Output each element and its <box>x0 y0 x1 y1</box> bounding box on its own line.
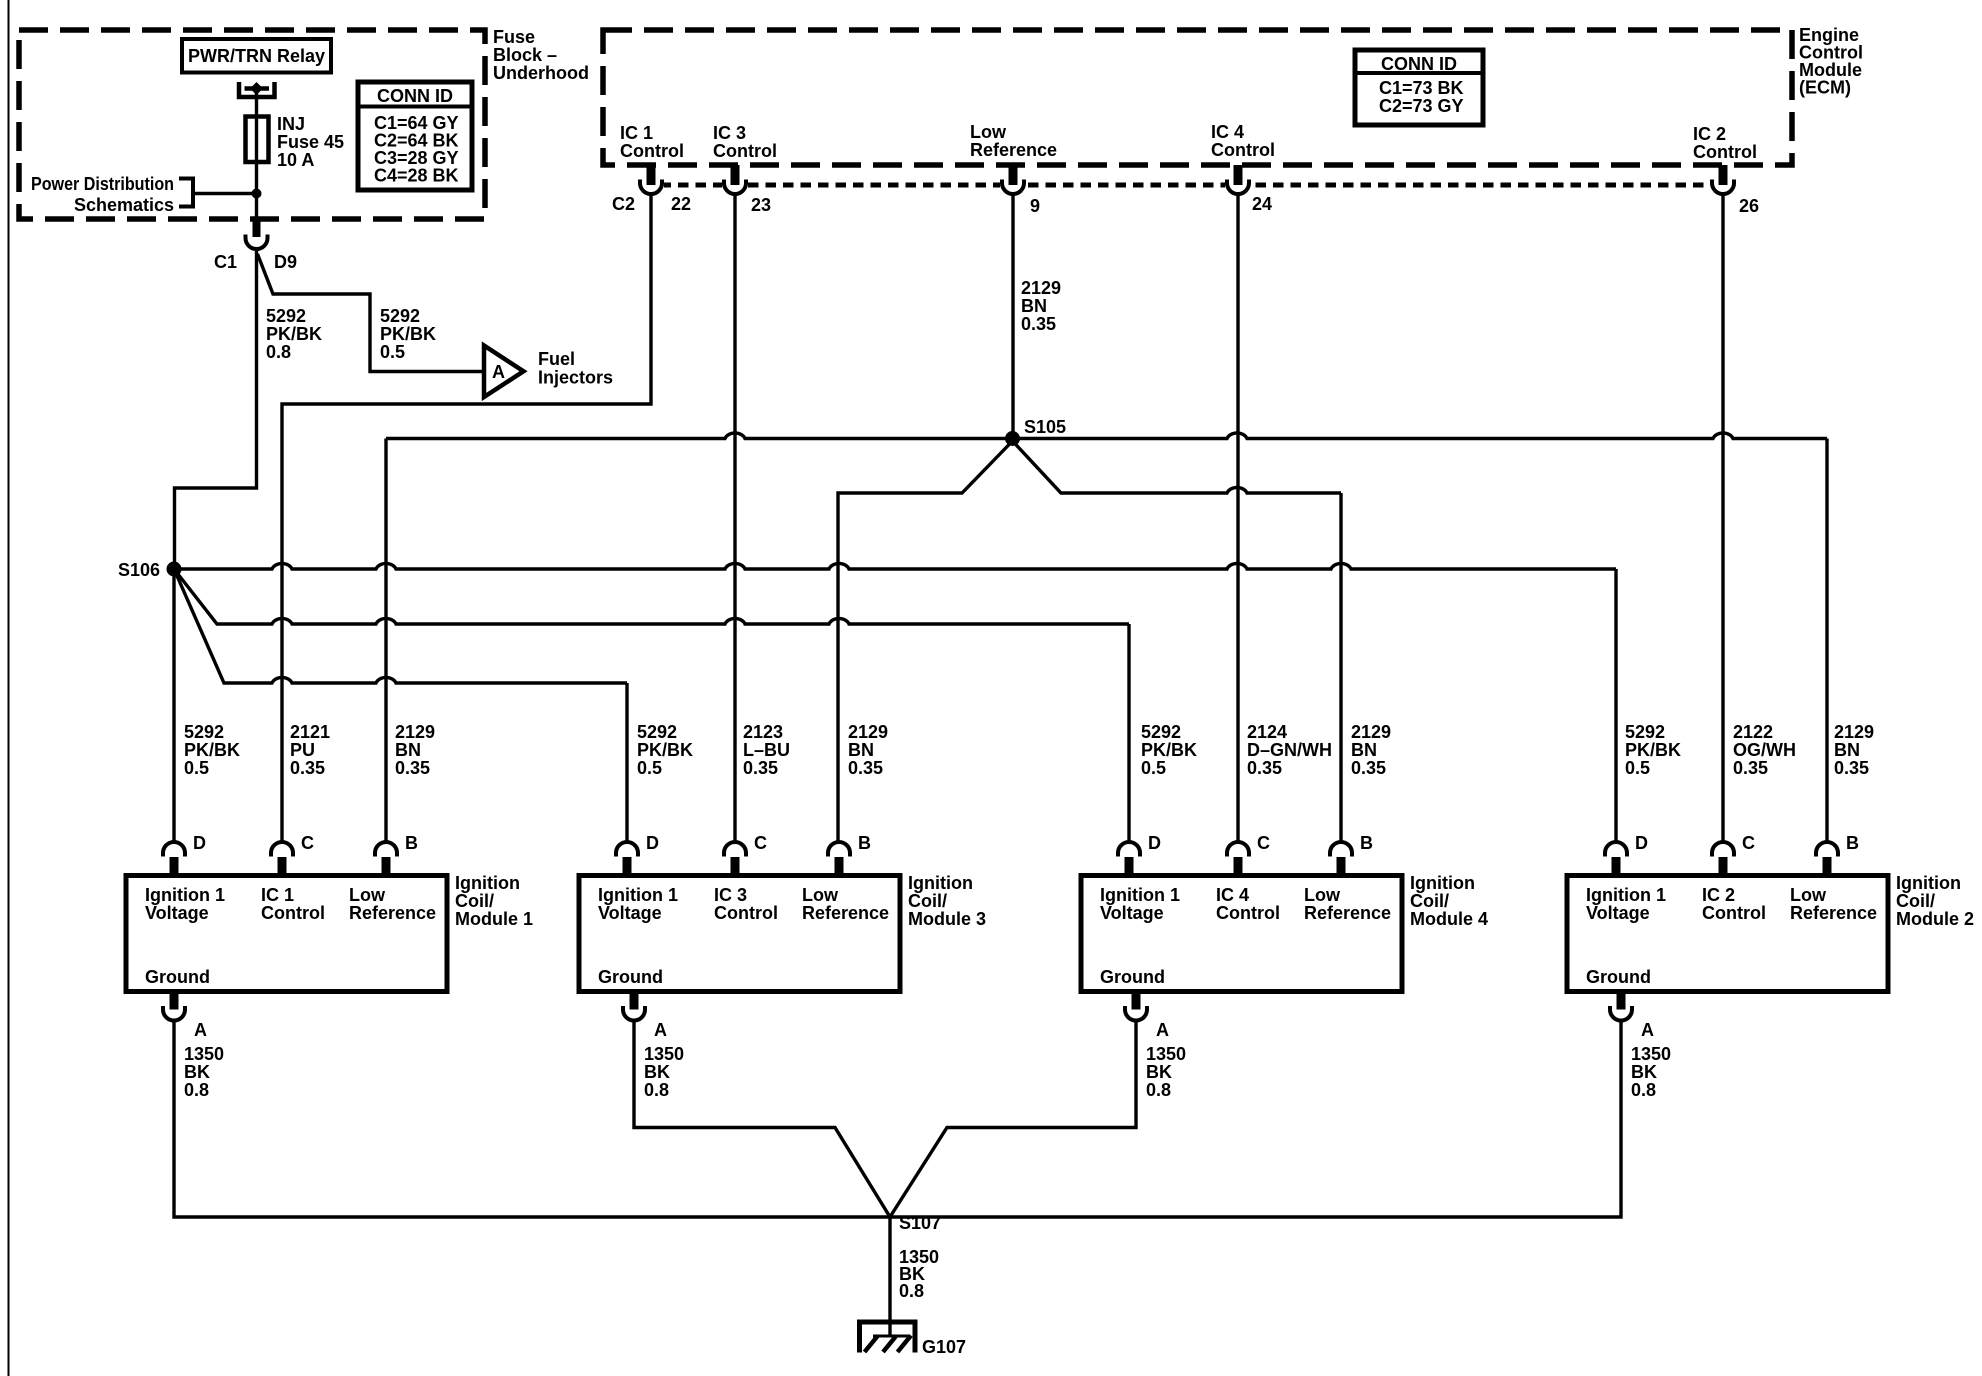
svg-text:5292: 5292 <box>184 722 224 742</box>
svg-text:B: B <box>1360 833 1373 853</box>
svg-text:Voltage: Voltage <box>145 903 209 923</box>
svg-text:CONN ID: CONN ID <box>1381 54 1457 74</box>
svg-text:INJ: INJ <box>277 114 305 134</box>
svg-text:2124: 2124 <box>1247 722 1287 742</box>
svg-text:2121: 2121 <box>290 722 330 742</box>
svg-text:Control: Control <box>1702 903 1766 923</box>
svg-text:CONN ID: CONN ID <box>377 86 453 106</box>
svg-text:0.8: 0.8 <box>644 1080 669 1100</box>
svg-text:Ignition 1: Ignition 1 <box>1100 885 1180 905</box>
svg-text:1350: 1350 <box>1631 1044 1671 1064</box>
svg-text:PU: PU <box>290 740 315 760</box>
svg-text:L–BU: L–BU <box>743 740 790 760</box>
svg-text:Coil/: Coil/ <box>455 891 494 911</box>
svg-text:C: C <box>754 833 767 853</box>
svg-text:D: D <box>1635 833 1648 853</box>
svg-text:C: C <box>301 833 314 853</box>
svg-text:1350: 1350 <box>1146 1044 1186 1064</box>
svg-text:0.8: 0.8 <box>1631 1080 1656 1100</box>
svg-text:5292: 5292 <box>266 306 306 326</box>
svg-text:PWR/TRN Relay: PWR/TRN Relay <box>188 46 325 66</box>
svg-text:Ignition: Ignition <box>1410 873 1475 893</box>
svg-text:PK/BK: PK/BK <box>1625 740 1681 760</box>
svg-text:PK/BK: PK/BK <box>184 740 240 760</box>
svg-text:Fuse 45: Fuse 45 <box>277 132 344 152</box>
svg-text:A: A <box>194 1020 207 1040</box>
svg-text:OG/WH: OG/WH <box>1733 740 1796 760</box>
svg-text:A: A <box>1156 1020 1169 1040</box>
svg-text:Injectors: Injectors <box>538 368 613 388</box>
svg-text:C: C <box>1742 833 1755 853</box>
svg-text:BK: BK <box>1146 1062 1172 1082</box>
svg-text:Module 3: Module 3 <box>908 909 986 929</box>
svg-text:0.35: 0.35 <box>1733 758 1768 778</box>
svg-text:S107: S107 <box>899 1213 941 1233</box>
svg-text:0.8: 0.8 <box>266 342 291 362</box>
svg-text:5292: 5292 <box>637 722 677 742</box>
svg-text:IC 2: IC 2 <box>1693 124 1726 144</box>
svg-text:0.8: 0.8 <box>1146 1080 1171 1100</box>
svg-text:Block –: Block – <box>493 45 557 65</box>
svg-text:IC 1: IC 1 <box>261 885 294 905</box>
svg-text:Voltage: Voltage <box>598 903 662 923</box>
svg-text:Ignition: Ignition <box>908 873 973 893</box>
svg-text:0.8: 0.8 <box>184 1080 209 1100</box>
svg-text:0.35: 0.35 <box>743 758 778 778</box>
svg-text:D: D <box>1148 833 1161 853</box>
svg-text:9: 9 <box>1030 196 1040 216</box>
svg-text:Ignition: Ignition <box>455 873 520 893</box>
svg-text:24: 24 <box>1252 194 1272 214</box>
svg-text:10 A: 10 A <box>277 150 314 170</box>
svg-text:Reference: Reference <box>1790 903 1877 923</box>
svg-text:PK/BK: PK/BK <box>380 324 436 344</box>
svg-text:2129: 2129 <box>1021 278 1061 298</box>
svg-text:BN: BN <box>1021 296 1047 316</box>
svg-text:0.5: 0.5 <box>1625 758 1650 778</box>
svg-text:Coil/: Coil/ <box>1410 891 1449 911</box>
svg-text:Ignition 1: Ignition 1 <box>145 885 225 905</box>
svg-text:C4=28 BK: C4=28 BK <box>374 166 459 186</box>
svg-text:Module 4: Module 4 <box>1410 909 1488 929</box>
svg-text:Coil/: Coil/ <box>1896 891 1935 911</box>
svg-text:IC 4: IC 4 <box>1211 122 1244 142</box>
svg-text:23: 23 <box>751 195 771 215</box>
svg-text:1350: 1350 <box>644 1044 684 1064</box>
svg-text:0.5: 0.5 <box>380 342 405 362</box>
svg-text:S106: S106 <box>118 560 160 580</box>
svg-text:0.35: 0.35 <box>1351 758 1386 778</box>
svg-text:D9: D9 <box>274 252 297 272</box>
svg-text:Module 2: Module 2 <box>1896 909 1974 929</box>
svg-text:0.5: 0.5 <box>1141 758 1166 778</box>
svg-text:Reference: Reference <box>1304 903 1391 923</box>
svg-text:0.35: 0.35 <box>290 758 325 778</box>
svg-text:0.35: 0.35 <box>848 758 883 778</box>
svg-text:Control: Control <box>714 903 778 923</box>
svg-text:BN: BN <box>1351 740 1377 760</box>
svg-text:BK: BK <box>644 1062 670 1082</box>
svg-text:Control: Control <box>620 141 684 161</box>
svg-text:2123: 2123 <box>743 722 783 742</box>
svg-text:C: C <box>1257 833 1270 853</box>
svg-text:C2=73 GY: C2=73 GY <box>1379 96 1464 116</box>
svg-text:0.5: 0.5 <box>637 758 662 778</box>
svg-text:IC 3: IC 3 <box>713 123 746 143</box>
svg-text:PK/BK: PK/BK <box>266 324 322 344</box>
svg-text:Low: Low <box>349 885 386 905</box>
svg-text:C1=73 BK: C1=73 BK <box>1379 78 1464 98</box>
svg-text:0.35: 0.35 <box>395 758 430 778</box>
svg-text:Control: Control <box>261 903 325 923</box>
svg-text:B: B <box>405 833 418 853</box>
svg-text:D: D <box>193 833 206 853</box>
svg-text:Ground: Ground <box>1100 967 1165 987</box>
svg-text:Ignition: Ignition <box>1896 873 1961 893</box>
svg-text:0.5: 0.5 <box>184 758 209 778</box>
svg-text:Low: Low <box>802 885 839 905</box>
svg-text:BK: BK <box>184 1062 210 1082</box>
svg-text:2129: 2129 <box>395 722 435 742</box>
svg-text:Ground: Ground <box>1586 967 1651 987</box>
svg-text:A: A <box>492 362 505 382</box>
svg-text:Coil/: Coil/ <box>908 891 947 911</box>
svg-text:B: B <box>858 833 871 853</box>
svg-text:Reference: Reference <box>349 903 436 923</box>
svg-text:G107: G107 <box>922 1337 966 1357</box>
svg-text:Low: Low <box>970 122 1007 142</box>
svg-text:BN: BN <box>1834 740 1860 760</box>
svg-text:0.35: 0.35 <box>1834 758 1869 778</box>
svg-text:Power Distribution: Power Distribution <box>31 174 174 194</box>
svg-text:2129: 2129 <box>1834 722 1874 742</box>
svg-text:2129: 2129 <box>1351 722 1391 742</box>
svg-text:5292: 5292 <box>380 306 420 326</box>
svg-text:C2: C2 <box>612 194 635 214</box>
svg-text:Voltage: Voltage <box>1100 903 1164 923</box>
svg-text:(ECM): (ECM) <box>1799 78 1851 98</box>
svg-text:Underhood: Underhood <box>493 63 589 83</box>
svg-text:PK/BK: PK/BK <box>1141 740 1197 760</box>
svg-text:Ignition 1: Ignition 1 <box>1586 885 1666 905</box>
svg-text:Reference: Reference <box>802 903 889 923</box>
svg-text:26: 26 <box>1739 196 1759 216</box>
svg-text:0.35: 0.35 <box>1021 314 1056 334</box>
svg-text:2122: 2122 <box>1733 722 1773 742</box>
svg-text:A: A <box>654 1020 667 1040</box>
svg-text:Module 1: Module 1 <box>455 909 533 929</box>
svg-text:Control: Control <box>1216 903 1280 923</box>
svg-text:S105: S105 <box>1024 417 1066 437</box>
svg-text:Ground: Ground <box>145 967 210 987</box>
svg-text:Reference: Reference <box>970 140 1057 160</box>
svg-text:A: A <box>1641 1020 1654 1040</box>
svg-text:IC 1: IC 1 <box>620 123 653 143</box>
svg-text:Voltage: Voltage <box>1586 903 1650 923</box>
svg-text:IC 2: IC 2 <box>1702 885 1735 905</box>
svg-text:Low: Low <box>1790 885 1827 905</box>
svg-text:D: D <box>646 833 659 853</box>
svg-text:Fuel: Fuel <box>538 349 575 369</box>
svg-text:Fuse: Fuse <box>493 27 535 47</box>
svg-text:5292: 5292 <box>1141 722 1181 742</box>
svg-text:PK/BK: PK/BK <box>637 740 693 760</box>
svg-text:5292: 5292 <box>1625 722 1665 742</box>
svg-text:0.8: 0.8 <box>899 1281 924 1301</box>
svg-text:Control: Control <box>713 141 777 161</box>
svg-text:BK: BK <box>1631 1062 1657 1082</box>
svg-text:22: 22 <box>671 194 691 214</box>
svg-text:0.35: 0.35 <box>1247 758 1282 778</box>
svg-text:2129: 2129 <box>848 722 888 742</box>
svg-text:BN: BN <box>848 740 874 760</box>
svg-text:IC 3: IC 3 <box>714 885 747 905</box>
svg-text:D–GN/WH: D–GN/WH <box>1247 740 1332 760</box>
svg-text:BN: BN <box>395 740 421 760</box>
svg-text:Schematics: Schematics <box>74 195 174 215</box>
svg-text:C1: C1 <box>214 252 237 272</box>
svg-text:Ignition 1: Ignition 1 <box>598 885 678 905</box>
svg-text:Control: Control <box>1211 140 1275 160</box>
svg-text:IC 4: IC 4 <box>1216 885 1249 905</box>
svg-text:1350: 1350 <box>184 1044 224 1064</box>
svg-text:Ground: Ground <box>598 967 663 987</box>
svg-text:Control: Control <box>1693 142 1757 162</box>
svg-text:Low: Low <box>1304 885 1341 905</box>
svg-text:B: B <box>1846 833 1859 853</box>
